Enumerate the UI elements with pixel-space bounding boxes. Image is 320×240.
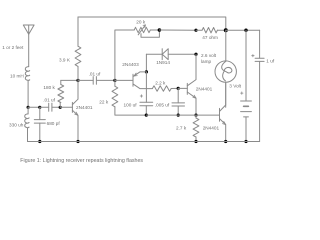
transistor Q2 2N4403 xyxy=(115,72,152,89)
inductor L1 10 mH xyxy=(25,67,29,81)
svg-text:2.7 k: 2.7 k xyxy=(176,126,187,131)
transistor Q3 2N4401 xyxy=(178,54,196,115)
capacitor C1 680 pf xyxy=(34,107,45,141)
svg-text:1N914: 1N914 xyxy=(156,60,170,65)
svg-text:1 uf: 1 uf xyxy=(266,58,275,63)
capacitor C3 .01 uf (coupling) xyxy=(78,77,115,85)
svg-text:47 ohm: 47 ohm xyxy=(202,35,218,40)
node: Q3 base xyxy=(177,87,180,90)
node: Q1 collector xyxy=(76,79,79,82)
svg-text:180 k: 180 k xyxy=(43,85,55,90)
svg-text:2.6 volt: 2.6 volt xyxy=(201,53,217,58)
resistor R3 22 k xyxy=(112,80,146,115)
capacitor C2 .01 uf (series input) xyxy=(40,103,60,111)
inductor L2 330 uh xyxy=(25,107,29,141)
node: Q3 collector / 47ohm xyxy=(194,29,197,32)
wire diode corner down to Q2 emitter xyxy=(145,54,147,72)
resistor R1 180 k xyxy=(58,80,64,107)
svg-text:.01 uf: .01 uf xyxy=(89,71,101,76)
node: battery negative ground junction xyxy=(244,140,247,143)
svg-text:3.9 K: 3.9 K xyxy=(59,57,71,62)
plus sign C6 xyxy=(252,55,254,57)
node: Q2 base xyxy=(113,79,116,82)
svg-text:.005 uf: .005 uf xyxy=(155,102,170,107)
node: Q3 emitter xyxy=(194,114,197,117)
svg-text:lamp: lamp xyxy=(201,59,212,64)
svg-text:.01 uf: .01 uf xyxy=(43,98,55,103)
capacitor C6 1 uf xyxy=(255,30,264,141)
node: Q2 emitter xyxy=(145,70,148,73)
node: battery positive junction xyxy=(244,29,247,32)
resistor R7 2.7 k xyxy=(193,115,199,141)
svg-text:2N4403: 2N4403 xyxy=(122,62,139,67)
resistor R5 47 ohm xyxy=(196,28,226,33)
battery B1 3 Volt xyxy=(241,30,252,141)
lamp LP1 2.6 volt xyxy=(215,30,236,107)
svg-text:2.2 k: 2.2 k xyxy=(155,80,166,85)
node: C5 bottom junction xyxy=(177,114,180,117)
wire base to Q1 xyxy=(60,106,72,108)
node: 680pf top junction xyxy=(38,106,41,109)
capacitor C4 100 uf xyxy=(140,102,153,115)
potentiometer R4 20 k xyxy=(134,25,159,37)
node: C4 bottom junction xyxy=(145,114,148,117)
node: 680pf ground junction xyxy=(38,140,41,143)
wire tank top xyxy=(28,106,40,108)
resistor R6 2.2 k xyxy=(152,86,178,91)
plus sign battery xyxy=(241,92,243,94)
wire V+ to battery and cap xyxy=(226,29,260,31)
wire 180k top to collector node xyxy=(61,79,78,81)
svg-text:680 pf: 680 pf xyxy=(47,121,61,126)
wire mid rail xyxy=(146,114,219,116)
svg-text:2N4401: 2N4401 xyxy=(76,105,93,110)
svg-text:2N4401: 2N4401 xyxy=(203,126,220,131)
node: diode anode xyxy=(194,53,197,56)
node: pot output xyxy=(158,28,162,32)
svg-text:330 uh: 330 uh xyxy=(9,123,24,128)
svg-text:22 k: 22 k xyxy=(99,99,109,104)
svg-text:Figure 1: Lightning receiver r: Figure 1: Lightning receiver repeats lig… xyxy=(20,158,143,164)
svg-text:10 mH: 10 mH xyxy=(10,74,24,79)
svg-text:20 k: 20 k xyxy=(136,20,146,25)
capacitor C5 .005 uf xyxy=(172,88,185,115)
svg-text:100 uf: 100 uf xyxy=(124,102,138,107)
node: R7 ground junction xyxy=(194,140,197,143)
wire pot wiper feed xyxy=(115,30,134,80)
svg-text:3 Volt: 3 Volt xyxy=(229,84,241,89)
wire L1 bottom to node xyxy=(27,80,29,107)
svg-text:2N4401: 2N4401 xyxy=(196,86,213,91)
wire top supply rail xyxy=(78,17,226,30)
node: Q1 emitter ground junction xyxy=(76,140,79,143)
transistor Q1 2N4401 xyxy=(72,80,78,141)
transistor Q4 2N4401 xyxy=(220,82,226,141)
resistor R2 3.9 K xyxy=(75,17,81,80)
wire pot to Q3 collector node xyxy=(159,29,196,31)
node: antenna/tank junction xyxy=(27,106,30,109)
wire Q2 emitter down to C4 xyxy=(145,72,147,102)
diode D1 1N914 xyxy=(146,49,196,60)
svg-text:1 or 2 feet: 1 or 2 feet xyxy=(2,45,24,50)
antenna xyxy=(23,25,34,34)
wire antenna feed xyxy=(28,34,30,66)
plus sign C4 xyxy=(140,95,142,97)
node: Q1 base xyxy=(59,106,62,109)
wire ground rail xyxy=(28,141,260,143)
node: Q4 emitter ground junction xyxy=(224,140,227,143)
node: lamp top / V+ xyxy=(224,28,228,32)
